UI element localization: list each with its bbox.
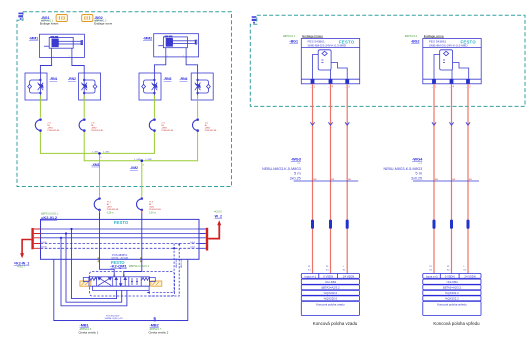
- svg-text:BN: BN: [435, 179, 438, 181]
- svg-text:→: →: [449, 86, 451, 89]
- svg-text:&BPS1/1=K2/1.1: &BPS1/1=K2/1.1: [129, 264, 150, 268]
- svg-text:SME-8M-DS-24V-K-0,3-M8D: SME-8M-DS-24V-K-0,3-M8D: [308, 44, 347, 48]
- svg-text:-RN4: -RN4: [180, 77, 188, 81]
- svg-text:→: →: [431, 86, 433, 89]
- svg-text:0,26 m: 0,26 m: [149, 212, 156, 214]
- svg-text:VABF-S4-1: VABF-S4-1: [175, 257, 178, 268]
- svg-text:Koncová poloha vzadu: Koncová poloha vzadu: [316, 302, 345, 306]
- svg-text:1214: 1214: [190, 247, 196, 249]
- svg-text:→: →: [310, 86, 312, 89]
- svg-text:24 V5DN: 24 V5DN: [343, 274, 354, 278]
- svg-text:24 V5DN: 24 V5DN: [464, 274, 475, 278]
- svg-text:VMPAL-9QB-Q-P5: VMPAL-9QB-Q-P5: [105, 317, 124, 320]
- svg-text:-K2-QM1: -K2-QM1: [110, 264, 127, 269]
- svg-text:1 -XM2: 1 -XM2: [134, 159, 141, 161]
- svg-text:&BPS1/1.1: &BPS1/1.1: [283, 35, 296, 38]
- svg-text:=K2-W_1: =K2-W_1: [14, 261, 29, 265]
- svg-text:=K2/1.7: =K2/1.7: [17, 267, 26, 269]
- svg-text:Koncová poloha vpředu: Koncová poloha vpředu: [433, 321, 480, 326]
- svg-text:=K2-KB4: =K2-KB4: [325, 280, 337, 284]
- svg-text:FESTO: FESTO: [114, 220, 129, 225]
- svg-text:Input x+1: Input x+1: [305, 274, 317, 278]
- svg-text:-RN1: -RN1: [50, 77, 58, 81]
- svg-text:→: →: [344, 86, 346, 89]
- svg-text:Cievka ventilu 1: Cievka ventilu 1: [79, 330, 99, 334]
- svg-text:5 m: 5 m: [415, 171, 422, 176]
- svg-text:%QX202.0: %QX202.0: [324, 291, 338, 295]
- svg-text:3x0,25: 3x0,25: [290, 176, 301, 180]
- svg-text:%QX202.0: %QX202.0: [324, 297, 338, 301]
- svg-text:-MM2: -MM2: [143, 36, 152, 40]
- svg-text:→: →: [465, 86, 467, 89]
- svg-text:2 -XM2: 2 -XM2: [145, 159, 152, 161]
- svg-text:-MB1: -MB1: [80, 324, 89, 328]
- svg-text:&BTA3=A2/3.2: &BTA3=A2/3.2: [443, 286, 462, 290]
- svg-text:-MB2: -MB2: [150, 324, 159, 328]
- svg-text:W_2: W_2: [215, 214, 222, 218]
- svg-text:PUN-6X1-BL: PUN-6X1-BL: [149, 209, 162, 211]
- svg-text:Endlage hinten: Endlage hinten: [302, 34, 323, 38]
- svg-text:Koncová poloha vzadu: Koncová poloha vzadu: [313, 321, 358, 326]
- svg-text:-BG1: -BG1: [289, 39, 298, 43]
- svg-text:→: →: [328, 86, 330, 89]
- svg-text:Koncová poloha vpředu: Koncová poloha vpředu: [437, 302, 467, 306]
- svg-text:Cievka ventilu 2: Cievka ventilu 2: [149, 330, 169, 334]
- svg-text:-BG2: -BG2: [411, 39, 420, 43]
- svg-text:-RN3: -RN3: [164, 77, 172, 81]
- svg-text:PUN-6X1-BL: PUN-6X1-BL: [91, 130, 104, 132]
- svg-text:BN: BN: [314, 179, 317, 181]
- svg-text:2 -XM1: 2 -XM1: [103, 152, 110, 154]
- svg-text:1 -XM1: 1 -XM1: [92, 152, 99, 154]
- svg-text:%QX202.2: %QX202.2: [445, 297, 459, 301]
- svg-text:VAOH-S4: VAOH-S4: [180, 258, 183, 268]
- svg-text:Input x+3: Input x+3: [426, 274, 438, 278]
- svg-text:=K2/2.0: =K2/2.0: [214, 211, 223, 213]
- svg-text:PUN-6X1-BL: PUN-6X1-BL: [107, 209, 120, 211]
- svg-text:PUN-6X1-BL: PUN-6X1-BL: [205, 130, 218, 132]
- svg-text:PUN-6X1-BL: PUN-6X1-BL: [162, 130, 175, 132]
- svg-text:BU: BU: [469, 179, 472, 181]
- svg-text:-WG4: -WG4: [412, 156, 423, 161]
- svg-text:140N: 140N: [41, 242, 47, 244]
- svg-text:-WG3: -WG3: [291, 156, 302, 161]
- svg-text:PUN-6X1-BL: PUN-6X1-BL: [48, 130, 61, 132]
- svg-text:-XM1: -XM1: [92, 163, 100, 167]
- svg-text:Endlage vorne: Endlage vorne: [94, 21, 112, 25]
- svg-text:5 m: 5 m: [294, 171, 301, 176]
- svg-text:&BTA3=A2/3.2: &BTA3=A2/3.2: [321, 286, 340, 290]
- svg-text:3x0,25: 3x0,25: [411, 176, 422, 180]
- svg-text:0,26 m: 0,26 m: [107, 212, 114, 214]
- svg-text:SME-8M-DS-24V-K-0,3-M8D: SME-8M-DS-24V-K-0,3-M8D: [429, 44, 468, 48]
- svg-text:%QX202.2: %QX202.2: [445, 291, 459, 295]
- svg-text:-MM1: -MM1: [29, 36, 38, 40]
- svg-text:-RN2: -RN2: [68, 77, 76, 81]
- svg-text:0 V5DN: 0 V5DN: [323, 274, 333, 278]
- svg-text:&BPS1/1.2: &BPS1/1.2: [405, 35, 418, 38]
- svg-text:0 V5DN: 0 V5DN: [445, 274, 455, 278]
- svg-text:Endlage hinten: Endlage hinten: [40, 21, 59, 25]
- svg-text:610N: 610N: [41, 247, 47, 249]
- svg-text:-XM2: -XM2: [130, 166, 138, 170]
- svg-text:BU: BU: [348, 179, 351, 181]
- svg-text:=K2-KB4: =K2-KB4: [446, 280, 458, 284]
- svg-text:1414: 1414: [190, 242, 196, 244]
- svg-text:Endlage vorne: Endlage vorne: [424, 34, 444, 38]
